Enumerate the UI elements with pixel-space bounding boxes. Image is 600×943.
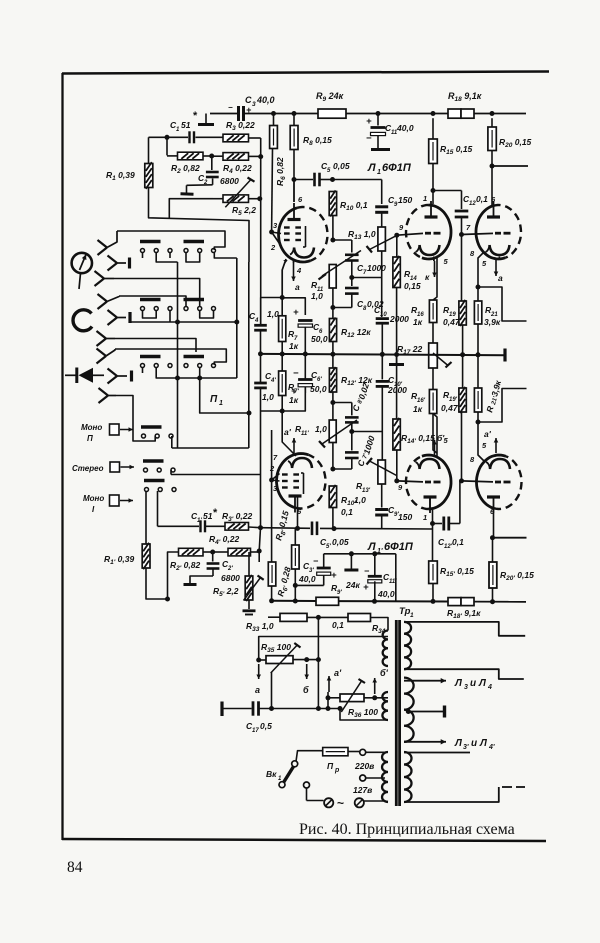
svg-text:П: П	[327, 761, 334, 771]
svg-text:1к: 1к	[413, 404, 423, 414]
anode lead tube1' to row	[297, 496, 299, 528]
svg-text:+: +	[331, 570, 337, 581]
resistor R21' 3,9к	[474, 388, 481, 412]
arrow Л3 и Л4	[404, 680, 430, 682]
svg-text:б': б'	[380, 668, 389, 678]
cathode lead tube3'	[478, 412, 484, 461]
terminal bar C17 left	[220, 702, 223, 717]
arrow а	[258, 664, 260, 679]
arrow б	[293, 659, 318, 661]
svg-text:Л: Л	[367, 541, 376, 553]
resistor R20' 0,15	[492, 538, 494, 562]
svg-text:40,0: 40,0	[256, 95, 275, 105]
svg-text:6': 6'	[317, 377, 322, 383]
arrow а' lower	[328, 676, 330, 692]
bus node dots	[258, 351, 263, 356]
wire Y6 feed	[115, 339, 196, 353]
svg-text:3: 3	[252, 101, 256, 108]
wire R33/R34 row	[268, 616, 280, 618]
arrow б' lower	[374, 678, 376, 694]
resistor R8' 0,15	[294, 528, 296, 545]
svg-text:а': а'	[484, 429, 492, 439]
wire R6 to grid	[271, 149, 274, 233]
svg-text:0,1: 0,1	[332, 620, 344, 630]
svg-text:а: а	[255, 685, 260, 695]
wire long vertical A	[177, 262, 179, 448]
node C7/C8	[349, 275, 354, 280]
resistor R15' 0,15	[432, 524, 434, 562]
svg-text:150: 150	[398, 512, 412, 522]
resistor R19' 0,47	[462, 355, 464, 388]
capacitor C11 40,0 electrolytic	[377, 114, 379, 126]
wire to C4	[261, 298, 283, 325]
node C5 / anode	[292, 177, 297, 182]
input fork Y1	[98, 240, 108, 248]
wire Y4 feed	[119, 296, 186, 306]
svg-text:−: −	[228, 103, 233, 112]
resistor R8 0,15	[293, 114, 295, 126]
resistor R4 0,22	[223, 153, 249, 161]
wire R16' to tube2' cathode	[433, 414, 437, 454]
wire Y7 feed	[115, 349, 226, 365]
resistor R34	[348, 614, 371, 622]
svg-text:51: 51	[181, 120, 191, 130]
terminal bar bus right end	[503, 349, 506, 362]
terminal bar lower	[350, 554, 352, 569]
resistor R10' 0,1	[329, 486, 336, 508]
node tube2 grid	[394, 233, 399, 238]
svg-text:13': 13'	[362, 488, 371, 494]
svg-text:Л: Л	[454, 738, 463, 749]
wire y322	[130, 321, 237, 323]
node R20 / screen wire	[490, 164, 495, 169]
node tube2' grid	[394, 478, 399, 483]
svg-text:0,47: 0,47	[441, 403, 459, 413]
svg-text:2000: 2000	[389, 314, 409, 324]
ground under C2	[181, 192, 194, 195]
svg-text:40,0: 40,0	[298, 574, 316, 584]
svg-text:127в: 127в	[353, 785, 372, 795]
svg-text:6800: 6800	[221, 573, 240, 583]
cathode lead tube2'	[433, 414, 437, 458]
wire R35 loop	[259, 637, 388, 661]
svg-text:а': а'	[284, 427, 292, 437]
wire C6' to cathode node	[282, 387, 305, 412]
svg-text:−: −	[293, 368, 299, 379]
svg-text:1,0: 1,0	[315, 424, 327, 434]
wire bank1 feed	[117, 231, 225, 250]
resistor R7 1к	[281, 298, 283, 316]
power winding C	[382, 752, 388, 802]
wire to C6	[282, 298, 305, 315]
fuse Пр	[296, 751, 323, 762]
node tube3' cathode	[476, 420, 481, 425]
svg-text:р: р	[334, 767, 340, 774]
terminal 127в	[360, 775, 366, 781]
wire C1' row	[158, 525, 200, 527]
switch bank bar	[140, 298, 161, 301]
terminal stub under bus at R14	[396, 355, 398, 364]
capacitor C11' 40,0 electrolytic	[374, 554, 376, 576]
svg-text:Стерео: Стерео	[72, 464, 104, 473]
svg-text:3': 3'	[463, 744, 469, 751]
resistor R7' 1к	[281, 396, 283, 412]
secondary winding S3	[404, 752, 412, 802]
page border frame left	[61, 73, 63, 840]
node R1 top	[165, 135, 170, 140]
svg-text:−: −	[364, 566, 370, 576]
switch Вк1	[292, 761, 298, 767]
node tube3 cathode	[476, 285, 481, 290]
svg-text:~: ~	[337, 796, 344, 810]
svg-text:1,0: 1,0	[311, 291, 323, 301]
input fork Y2 + jack	[108, 256, 118, 264]
svg-text:*: *	[213, 507, 218, 519]
input fork Y9	[99, 388, 109, 396]
wire Y3 feed	[114, 279, 200, 307]
svg-text:50,0: 50,0	[310, 384, 327, 394]
svg-text:0,05: 0,05	[332, 537, 349, 547]
lower coupling row	[261, 527, 311, 530]
flag box stereo	[110, 462, 120, 472]
resistor R13 1,0 variable	[378, 227, 386, 251]
resistor R11 1,0 variable	[329, 265, 336, 289]
grid dashes tube1	[284, 226, 290, 228]
wire mono P to R-network	[156, 436, 158, 448]
resistor R21 3,9к	[474, 301, 481, 324]
svg-text:4: 4	[296, 266, 302, 275]
svg-text:а: а	[295, 282, 300, 292]
svg-text:Вк: Вк	[266, 769, 277, 779]
capacitor C8 0,02	[351, 278, 353, 287]
wire bank1 internal	[156, 252, 177, 262]
capacitor C4' 1,0	[254, 382, 267, 385]
svg-text:17: 17	[252, 728, 259, 734]
svg-text:0,1: 0,1	[341, 507, 353, 517]
grid leads tube1	[269, 230, 274, 235]
resistor R2' 0,82	[179, 548, 204, 556]
resistor R16 1к	[429, 300, 436, 323]
resistor R35 100 variable	[266, 656, 293, 664]
resistor R3' 0,22	[205, 525, 225, 527]
wire C1 row	[149, 136, 189, 138]
resistor R6 0,82	[273, 114, 275, 126]
svg-text:2: 2	[203, 180, 208, 186]
svg-text:а: а	[498, 273, 503, 283]
anode wire tube3' pin6	[493, 513, 495, 538]
flag box mono I	[110, 495, 120, 506]
capacitor C9 150	[375, 205, 388, 208]
svg-text:Рис. 40. Принципиальная схем: Рис. 40. Принципиальная схема	[299, 821, 515, 838]
page border frame top	[62, 72, 549, 74]
resistor R13' variable	[378, 460, 386, 484]
capacitor C3' 40,0 electrolytic	[323, 575, 325, 586]
switch bank bar	[141, 425, 162, 428]
wire bank3 internal	[156, 367, 237, 378]
node anode tube2 / C12	[431, 188, 436, 193]
svg-text:1: 1	[423, 194, 427, 203]
S2 center tap	[406, 709, 411, 714]
flag box mono P	[110, 424, 120, 435]
input fork Y7	[97, 349, 107, 357]
svg-text:Моно: Моно	[81, 423, 102, 432]
tube Л1' triode lower	[422, 455, 451, 509]
capacitor C10' 2000	[381, 354, 383, 379]
svg-text:1000: 1000	[367, 263, 386, 273]
svg-text:Тр: Тр	[399, 606, 411, 617]
svg-text:50,0: 50,0	[311, 334, 328, 344]
wire right column of network	[249, 137, 261, 139]
terminal bar top left	[205, 114, 207, 124]
wire mono I stubs	[145, 491, 147, 510]
svg-text:1: 1	[219, 400, 223, 407]
svg-text:C: C	[245, 95, 252, 105]
node tube3 grid	[459, 232, 464, 237]
resistor R9' 24к	[316, 597, 339, 605]
wire C5 row to C9 column	[333, 179, 382, 181]
cathode lead + arrow tube3	[498, 257, 500, 261]
grid bus lower	[271, 430, 273, 562]
svg-text:0,5: 0,5	[260, 721, 272, 731]
svg-text:11': 11'	[301, 431, 309, 437]
wire stereo feed	[171, 474, 261, 476]
resistor R10 0,1	[329, 192, 336, 216]
wire top rail	[210, 113, 237, 115]
svg-text:0,1: 0,1	[476, 194, 488, 204]
secondary winding S2	[404, 678, 414, 742]
node anode tube2' / C12'	[430, 521, 435, 526]
grid leads tube1'	[269, 478, 274, 483]
switch bank bar	[140, 240, 161, 243]
secondary S1 leads	[404, 622, 525, 636]
input fork Y5 + jack	[108, 310, 118, 318]
resistor R18' 9,1к	[448, 598, 461, 606]
resistor R1 0,39	[148, 137, 150, 163]
svg-text:1,0: 1,0	[262, 392, 274, 402]
svg-text:Л: Л	[367, 162, 376, 174]
resistor R2 0,82	[178, 152, 204, 160]
resistor R3 0,22	[223, 134, 249, 142]
resistor R9 24к	[318, 109, 346, 118]
wire stereo stub	[170, 470, 172, 475]
resistor R18 9,1к	[448, 109, 461, 118]
capacitor C1 51	[188, 131, 190, 143]
svg-text:6Ф1П: 6Ф1П	[384, 541, 414, 553]
input fork Y4	[98, 294, 108, 302]
svg-text:Л: Л	[478, 678, 487, 689]
tube Л1 triode upper	[422, 205, 451, 259]
svg-text:П: П	[87, 434, 93, 443]
transformer core	[395, 620, 398, 806]
svg-text:0,47: 0,47	[443, 317, 461, 327]
node R10/R11/C7	[330, 238, 335, 243]
capacitor C8' 0,02	[333, 402, 352, 404]
svg-text:и: и	[471, 738, 477, 749]
svg-text:0,05: 0,05	[333, 161, 350, 171]
svg-text:1: 1	[410, 612, 414, 619]
R36 loop	[326, 706, 331, 711]
svg-text:6Ф1П: 6Ф1П	[382, 162, 412, 174]
resistor R16' 1к	[429, 390, 436, 414]
svg-text:1': 1'	[197, 518, 202, 524]
resistor R12' 12к	[329, 368, 336, 392]
svg-text:1: 1	[423, 513, 427, 522]
primary winding A	[383, 631, 388, 667]
plug terminals	[304, 782, 310, 788]
svg-text:1: 1	[377, 169, 381, 176]
node dots on top rail	[271, 111, 276, 116]
svg-text:+: +	[291, 386, 297, 397]
input fork Y3	[95, 271, 105, 279]
wire central bus	[261, 354, 506, 355]
svg-text:150: 150	[398, 195, 412, 205]
resistor R20 0,15	[491, 118, 493, 127]
capacitor C2' 6800	[212, 552, 214, 562]
svg-text:1к: 1к	[413, 317, 423, 327]
resistor R36 100 variable	[328, 697, 340, 699]
svg-text:4: 4	[487, 684, 492, 691]
svg-text:3,9к: 3,9к	[484, 317, 501, 327]
switch bank bar	[144, 479, 165, 482]
svg-text:и: и	[470, 678, 476, 689]
wire Y9 feed	[116, 396, 155, 442]
svg-text:б': б'	[437, 433, 445, 443]
tape head icon	[73, 310, 92, 331]
svg-text:1,0: 1,0	[267, 309, 279, 319]
resistor R14' 0,15	[396, 355, 398, 420]
capacitor C5' 0,05	[311, 522, 314, 536]
svg-text:9': 9'	[337, 590, 342, 596]
svg-text:4': 4'	[488, 744, 495, 751]
wire screen feed lower	[324, 553, 396, 555]
capacitor C7' 1000	[351, 432, 353, 451]
svg-text:Л: Л	[454, 678, 463, 689]
svg-text:+: +	[363, 582, 369, 593]
capacitor C12 0,1	[433, 190, 462, 192]
svg-text:+: +	[293, 307, 299, 318]
ground under R5'	[248, 600, 250, 609]
wire long vertical B	[236, 258, 238, 378]
svg-text:3: 3	[464, 684, 468, 691]
wiper R35 to C17 bus	[271, 672, 273, 709]
switch bank bar	[143, 459, 164, 462]
wire bank3 to C4' path	[200, 378, 249, 413]
tube Л2 upper	[476, 206, 506, 259]
tube Л1 pentode upper	[279, 208, 311, 262]
terminal 220в	[360, 749, 366, 755]
capacitor C7 1000	[333, 239, 352, 241]
ground bar under C11	[371, 148, 390, 151]
winding B return	[340, 709, 388, 721]
resistor R17 22 variable	[429, 343, 438, 368]
cathode lead + arrow tube1	[293, 259, 295, 263]
svg-text:51: 51	[203, 511, 213, 521]
svg-text:10: 10	[380, 312, 387, 318]
capacitor C12' 0,1	[433, 523, 443, 525]
node tube3' grid	[459, 478, 464, 483]
svg-text:Моно: Моно	[83, 494, 104, 503]
resistor R12 12к	[329, 319, 336, 342]
node cathode network lower	[280, 409, 285, 414]
wire bank2 internal	[143, 310, 157, 318]
svg-text:2: 2	[270, 243, 276, 252]
capacitor C9' 150	[381, 484, 383, 508]
capacitor C1' 51	[199, 520, 201, 532]
pickup icon	[72, 253, 92, 273]
arrow Л3' и Л4'	[404, 741, 430, 743]
resistor R5' 2,2 variable	[248, 552, 250, 576]
svg-text:а': а'	[334, 668, 342, 678]
svg-text:40,0: 40,0	[377, 589, 395, 599]
capacitor C5 0,05	[294, 179, 313, 181]
cathode lead tube2	[433, 257, 435, 262]
input fork Y6	[97, 331, 107, 339]
capacitor C10 2000	[376, 317, 389, 320]
diode icon	[65, 374, 77, 376]
capacitor C17 0,5	[222, 708, 252, 710]
svg-text:−: −	[313, 556, 319, 566]
svg-text:84: 84	[67, 859, 83, 876]
svg-text:24к: 24к	[345, 580, 360, 590]
svg-text:−: −	[366, 133, 372, 144]
svg-text:5': 5'	[326, 544, 331, 550]
capacitor C4 1,0	[254, 324, 267, 327]
svg-text:1к: 1к	[289, 341, 299, 351]
svg-text:2': 2'	[227, 566, 233, 572]
network right column lower	[259, 528, 260, 562]
resistor R33 1,0	[280, 613, 307, 621]
svg-text:+: +	[246, 105, 252, 115]
node cathode network	[280, 295, 285, 300]
svg-text:0,15: 0,15	[404, 281, 421, 291]
svg-text:Л: Л	[479, 738, 488, 749]
S3 leads	[404, 752, 470, 754]
resistor R5 2,2 variable	[223, 195, 249, 203]
capacitor C3 40,0	[237, 106, 240, 121]
wire center drop	[317, 617, 319, 708]
resistor R19 0,47	[461, 235, 463, 302]
resistor R15 0,15	[432, 118, 434, 139]
cathode to R7 node	[282, 259, 286, 298]
svg-text:*: *	[193, 110, 198, 122]
svg-text:1,0: 1,0	[354, 495, 366, 505]
resistor R14 0,15	[393, 257, 400, 288]
svg-text:к: к	[425, 272, 430, 282]
svg-text:0,1: 0,1	[452, 537, 464, 547]
svg-text:6800: 6800	[220, 176, 239, 186]
primary winding B	[382, 692, 388, 720]
svg-text:+: +	[366, 116, 372, 127]
secondary winding S1	[404, 622, 411, 669]
wire bottom rail	[272, 600, 316, 602]
svg-text:4: 4	[254, 318, 259, 324]
tube Л2' lower	[477, 455, 507, 508]
node C7'/C8'	[349, 429, 354, 434]
svg-text:11': 11'	[389, 579, 397, 585]
svg-text:40,0: 40,0	[396, 123, 414, 133]
svg-text:б: б	[303, 685, 309, 695]
resistor R1' 0,39	[145, 510, 147, 544]
resistor R4' 0,22	[228, 548, 251, 556]
switch bank bar	[140, 355, 161, 358]
page border frame bottom	[62, 839, 546, 841]
svg-text:4': 4'	[270, 378, 276, 384]
svg-text:П: П	[210, 394, 218, 405]
resistor R6' 0,28	[268, 562, 276, 586]
tube Л1' pentode lower	[277, 454, 309, 508]
input fork Y8 + jack	[108, 369, 118, 377]
svg-text:220в: 220в	[354, 761, 374, 771]
